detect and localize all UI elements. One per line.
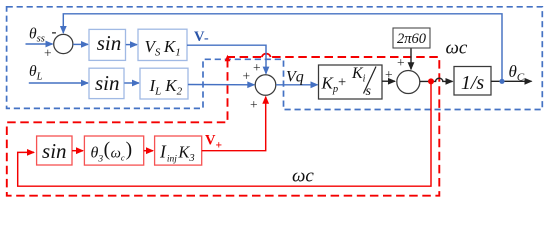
block sin2 xyxy=(89,68,124,98)
summing junction S1 xyxy=(54,34,73,53)
svg-text:+: + xyxy=(397,55,405,70)
block sin1 xyxy=(89,29,126,60)
junction dot blue on output xyxy=(499,79,504,84)
svg-text:+: + xyxy=(385,67,393,82)
wire sin1 to VsK1 xyxy=(126,44,137,46)
svg-text:+: + xyxy=(253,60,261,75)
summing junction S2 (central) xyxy=(255,75,276,96)
svg-text:+: + xyxy=(243,69,251,84)
svg-text:+: + xyxy=(338,75,346,91)
wire S3 to 1/s with hop over red dashed xyxy=(420,78,453,81)
junction dot red on omega_c line xyxy=(428,78,434,84)
block 2pi60 xyxy=(393,28,430,48)
block sin3 xyxy=(37,136,72,165)
wire IlK2 to S2 xyxy=(188,84,254,86)
svg-text:1/s: 1/s xyxy=(461,72,485,94)
svg-text:sin: sin xyxy=(95,71,120,95)
block 1/s integrator xyxy=(454,67,491,96)
svg-text:ωc: ωc xyxy=(292,166,314,187)
block theta3(omega_c) xyxy=(84,136,143,165)
wire 2pi60 down to S3 xyxy=(410,49,412,70)
svg-text:sin: sin xyxy=(97,31,122,55)
block IlK2 xyxy=(140,68,188,99)
wire Kp block to S3 xyxy=(382,80,395,82)
summing junction S3 xyxy=(397,71,420,94)
wire theta3 to IinjK3 xyxy=(144,150,153,152)
wire S2 to Kp block, Vq xyxy=(276,84,318,86)
block VsK1 xyxy=(138,29,187,60)
wire v- : VsK1 right then down into S2 top xyxy=(187,45,266,73)
wire 1/s to theta_C output xyxy=(491,80,532,82)
block PI controller Kp+Ki/s xyxy=(319,65,383,99)
block IinjK3 xyxy=(155,136,202,165)
wire S1 to sin1 xyxy=(73,43,88,45)
red dashed boundary (L-shape) with hop over v- line xyxy=(7,57,440,196)
red dashed hop over v- line xyxy=(262,54,271,57)
svg-text:ωc: ωc xyxy=(446,38,468,59)
wire omega_c loop: red from junction down, across bottom, up into sin3 xyxy=(18,81,431,186)
wire theta_ss input xyxy=(26,43,53,45)
svg-text:V-: V- xyxy=(194,29,209,46)
wire theta_L input xyxy=(29,82,88,84)
svg-text:+: + xyxy=(250,97,258,112)
svg-text:-: - xyxy=(52,25,57,41)
svg-text:Vq: Vq xyxy=(286,69,304,86)
svg-text:2π60: 2π60 xyxy=(397,31,427,47)
wire sin3 to theta3 xyxy=(72,150,83,152)
svg-text:s: s xyxy=(366,84,372,99)
wire v+ : IinjK3 right then up into S2 bottom xyxy=(202,97,266,151)
svg-text:+: + xyxy=(44,46,52,61)
wire feedback: output up, across top, down into S1 xyxy=(63,14,502,82)
outer blue dashed boundary with notch xyxy=(7,7,543,110)
wire sin2 to IlK2 xyxy=(124,82,139,84)
svg-text:sin: sin xyxy=(42,139,67,163)
red dashed arrowhead up at top-left corner of red box xyxy=(225,55,231,61)
